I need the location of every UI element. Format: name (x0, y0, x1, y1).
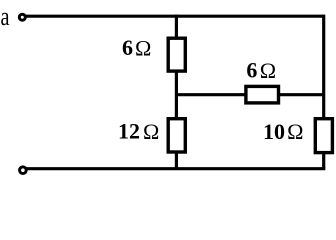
svg-text:Ω: Ω (143, 119, 159, 144)
node a label (1, 2, 10, 31)
svg-text:6: 6 (246, 58, 257, 83)
resistor R2 body (6 ohm horizontal) (246, 86, 279, 103)
svg-text:6: 6 (122, 35, 133, 60)
svg-text:Ω: Ω (135, 35, 151, 60)
resistor R3 body (12 ohm vertical) (168, 119, 185, 152)
wire bottom rail from terminal b to bottom-right corner (27, 167, 326, 170)
resistor R4 value label 10 ohm (263, 119, 303, 144)
svg-text:a: a (1, 2, 10, 31)
svg-text:12: 12 (118, 119, 140, 144)
resistor R1 value label 6 ohm (122, 35, 151, 60)
resistor R3 value label 12 ohm (118, 119, 159, 144)
terminal a (top open circle) (19, 14, 25, 20)
resistor R1 body (6 ohm vertical) (168, 38, 185, 71)
wire top rail from terminal a to top-right corner (26, 15, 324, 18)
resistor R4 body (10 ohm vertical) (315, 119, 332, 153)
wire middle vertical branch through R1 and R3 (175, 15, 178, 169)
wire middle horizontal branch through R2 (176, 93, 323, 96)
terminal bottom open circle (20, 167, 27, 174)
svg-text:10: 10 (263, 119, 285, 144)
resistor R2 value label 6 ohm (246, 58, 276, 83)
svg-text:Ω: Ω (260, 58, 276, 83)
wire right vertical rail (322, 15, 325, 169)
svg-text:Ω: Ω (287, 119, 303, 144)
